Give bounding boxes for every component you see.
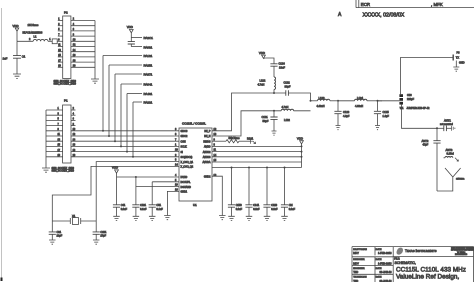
IC U1 CC115L / CC110L (179, 122, 212, 208)
svg-text:P3: P3 (457, 52, 461, 55)
ground (P2 rail) (91, 79, 99, 83)
svg-text:ENGINEER: ENGINEER (353, 268, 365, 270)
ground (P1 rail) (42, 168, 50, 172)
power flag VDD (AVDD bus) (297, 136, 304, 144)
svg-text:VDD: VDD (127, 25, 133, 29)
svg-text:PA091: PA091 (144, 45, 153, 49)
svg-text:47pF: 47pF (423, 144, 429, 147)
pad at P2 pin 9 (52, 39, 57, 44)
inductor L122 (258, 77, 276, 93)
wire flag PA131 to bus (102, 56, 104, 132)
title block frame (352, 247, 474, 282)
inductor L132 (281, 105, 310, 122)
page bottom-left corner mark (1, 278, 3, 282)
svg-text:C110: C110 (271, 204, 277, 207)
ground (C41) (113, 216, 120, 220)
svg-text:XXXXX, 02/08/0X: XXXXX, 02/08/0X (363, 13, 405, 19)
svg-text:L122: L122 (260, 79, 266, 83)
capacitor C123 (334, 100, 349, 126)
svg-text:RF_N: RF_N (204, 135, 211, 138)
svg-text:2: 2 (29, 38, 31, 41)
wire GND1 (167, 191, 179, 215)
svg-text:TBD: TBD (353, 271, 358, 274)
svg-text:DATE: DATE (376, 267, 382, 270)
wire P1 left ground rail (45, 110, 47, 168)
svg-text:DATE: DATE (376, 276, 382, 279)
svg-text:C150: C150 (236, 204, 243, 207)
svg-text:DATE: DATE (376, 258, 382, 261)
wire SI P1 to U1 (71, 151, 179, 153)
wire flag PA251 to bus (108, 65, 110, 137)
svg-text:GND1: GND1 (181, 191, 188, 194)
wire DGUARD (136, 186, 179, 188)
capacitor C125 (374, 100, 389, 126)
capacitor C81 (49, 221, 63, 240)
revision table top right (338, 0, 474, 19)
net flag PA461 (127, 92, 153, 96)
wire flag PA041 to bus (120, 84, 122, 147)
wire L1 to P2 pin 9 pad (48, 40, 52, 42)
svg-text:NLPC1A2222NGS: NLPC1A2222NGS (23, 31, 43, 34)
wire DCOUPL (152, 181, 179, 183)
wire AVDD row 1 (212, 145, 302, 147)
svg-text:0.1uF: 0.1uF (271, 208, 278, 211)
svg-text:CM: CM (289, 204, 293, 207)
wire RF_P (212, 92, 286, 131)
svg-text:ANT3: ANT3 (446, 148, 453, 152)
ground arrow (RBIAS) (251, 139, 256, 144)
svg-text:PA251: PA251 (144, 64, 153, 68)
svg-text:SMS_SOCKET_2X10: SMS_SOCKET_2X10 (54, 84, 77, 86)
capacitor C124 (265, 58, 285, 77)
wire P2 ground rail (94, 21, 96, 80)
wire AVDD row 4 (212, 161, 302, 163)
svg-text:1.6pF: 1.6pF (383, 115, 390, 118)
svg-text:SMS_SOCKET_2X10: SMS_SOCKET_2X10 (52, 171, 75, 173)
wire DVDD rail (117, 176, 180, 178)
wire jumper to antennas (402, 105, 439, 130)
svg-text:0.1uF: 0.1uF (156, 208, 163, 211)
svg-text:08-JAN-13: 08-JAN-13 (380, 271, 393, 274)
svg-text:P2: P2 (64, 11, 68, 15)
capacitor CM (281, 168, 296, 217)
svg-text:0.1uF: 0.1uF (140, 208, 147, 211)
ground (C141) (246, 216, 253, 220)
ground (C101) (93, 240, 100, 244)
svg-text:PA041: PA041 (144, 83, 153, 87)
power flag VDD (net flag column) (127, 25, 134, 37)
svg-text:SMS_SOCKET_2X10: SMS_SOCKET_2X10 (54, 81, 77, 83)
svg-text:CC115L / CC110L: CC115L / CC110L (182, 122, 206, 126)
svg-text:ANT1: ANT1 (444, 119, 451, 123)
svg-text:PA231: PA231 (144, 101, 153, 105)
svg-text:TECHNICIAN: TECHNICIAN (353, 276, 367, 279)
capacitor C141 (245, 168, 260, 217)
svg-text:C41: C41 (121, 204, 126, 207)
svg-text:1: 1 (49, 38, 51, 41)
wire to jumper (378, 100, 400, 102)
svg-text:C124: C124 (279, 62, 286, 66)
ground (C150) (228, 216, 235, 220)
svg-text:RBIAS: RBIAS (203, 140, 211, 143)
ground (GND2) (219, 216, 226, 220)
connector P1 (63, 99, 71, 164)
svg-text:PA131: PA131 (144, 54, 153, 58)
svg-text:JUMPER-K43-3P-J2: JUMPER-K43-3P-J2 (407, 107, 431, 110)
wire GDO0 P1 to U1 (71, 130, 179, 132)
inductor ANT3 (444, 148, 459, 162)
svg-text:33pF: 33pF (285, 85, 291, 89)
svg-text:AVDDA: AVDDA (202, 161, 210, 164)
connector P1 pins (46, 108, 76, 157)
svg-text:SI: SI (181, 151, 184, 154)
ground (C1) (13, 74, 21, 78)
svg-text:PA461: PA461 (144, 92, 153, 96)
svg-text:ValueLine Ref Design,: ValueLine Ref Design, (396, 274, 459, 281)
svg-text:4.62uH: 4.62uH (355, 105, 363, 108)
svg-text:SCLK: SCLK (181, 146, 188, 149)
wire decoupling rail (212, 167, 302, 169)
svg-text:4.62uH: 4.62uH (317, 105, 325, 108)
svg-text:C125: C125 (383, 110, 390, 114)
net flag PA371 (115, 73, 153, 77)
net flag PA091 (131, 45, 152, 49)
svg-text:C39: C39 (407, 94, 412, 97)
power flag VDD (DVDD) (112, 166, 119, 177)
svg-text:CSN: CSN (181, 140, 186, 143)
title block titles (394, 259, 466, 281)
svg-text:L132: L132 (284, 118, 290, 122)
P2 part number labels (54, 81, 77, 86)
ground (C131) (272, 131, 277, 135)
svg-text:1KOhms: 1KOhms (28, 23, 39, 27)
svg-text:P1: P1 (64, 99, 68, 103)
capacitor C110 (263, 168, 278, 217)
node RF join (310, 100, 312, 102)
svg-text:0.1uF: 0.1uF (253, 208, 260, 211)
svg-text:1uF: 1uF (3, 56, 8, 60)
inductor L123 (311, 96, 338, 108)
capacitor C122 (284, 81, 311, 101)
svg-text:56kOhms: 56kOhms (229, 136, 241, 140)
wire RF_N (212, 110, 281, 136)
svg-text:DVDD: DVDD (181, 176, 188, 179)
svg-text:C141: C141 (253, 204, 260, 207)
svg-text:C51: C51 (156, 204, 161, 207)
net flag PA131 (103, 54, 153, 58)
svg-text:C123: C123 (343, 110, 350, 114)
net flag PA041 (121, 83, 153, 87)
wire jumper to P3 (401, 58, 454, 95)
svg-text:MDV: MDV (353, 262, 359, 265)
svg-text:GDO2: GDO2 (181, 135, 188, 138)
svg-text:L1: L1 (34, 35, 37, 39)
resistor R131 56kOhms (212, 136, 254, 143)
svg-text:1-FEB-2013: 1-FEB-2013 (378, 252, 392, 255)
svg-text:0.1uF: 0.1uF (289, 208, 296, 211)
antenna symbol (437, 168, 465, 191)
net flag PA201 (131, 36, 153, 40)
svg-text:22pF: 22pF (57, 235, 63, 238)
svg-text:VDD: VDD (259, 51, 265, 55)
page left border (1, 8, 3, 281)
crystal X1 (52, 214, 96, 224)
svg-text:C181: C181 (140, 204, 147, 207)
svg-text:4.7uH: 4.7uH (258, 83, 265, 87)
wire CSN P1 to U1 (71, 140, 179, 142)
svg-text:INSTRUMENTS: INSTRUMENTS (455, 254, 468, 256)
svg-text:L124: L124 (357, 96, 363, 100)
inductor L1 (17, 23, 51, 42)
op-amp U1 pin labels left (175, 128, 194, 194)
wire flag PA371 to bus (114, 74, 116, 142)
svg-text:GDO0: GDO0 (181, 130, 188, 133)
wire SCLK P1 to U1 (71, 145, 179, 147)
capacitor C181 (132, 177, 147, 216)
capacitor C150 (228, 168, 243, 217)
ground (CM) (281, 216, 288, 220)
title block small print (451, 247, 474, 256)
svg-text:VDD: VDD (13, 24, 19, 28)
TI logo (397, 248, 437, 255)
svg-text:PA2O1: PA2O1 (144, 36, 154, 40)
svg-text:CC115L C110L 433 MHz: CC115L C110L 433 MHz (396, 266, 466, 273)
svg-text:VDD: VDD (297, 136, 303, 140)
ground (C125) (375, 126, 380, 130)
svg-text:PA371: PA371 (144, 73, 153, 77)
svg-text:, MFK: , MFK (431, 2, 443, 7)
P1 part number labels (52, 168, 75, 173)
svg-text:ANT2: ANT2 (422, 139, 429, 143)
svg-text:GND: GND (459, 61, 465, 64)
capacitor C1 (3, 41, 26, 74)
svg-text:GND2: GND2 (204, 175, 211, 178)
capacitor (flag column) (128, 38, 135, 47)
svg-text:0.25wl: 0.25wl (447, 153, 455, 156)
svg-text:27pF: 27pF (100, 235, 106, 238)
svg-text:A: A (338, 12, 342, 18)
svg-text:AVDD: AVDD (204, 146, 211, 149)
power flag VDD (top-left) (13, 24, 19, 41)
wire AVDD row 3 (212, 156, 302, 158)
inductor L124 (338, 96, 382, 108)
wire pad to P2 (57, 40, 63, 42)
ground (C81) (49, 240, 56, 244)
capacitor C41 (113, 177, 128, 216)
svg-text:C131: C131 (262, 115, 269, 119)
svg-text:X_OSC_Q2: X_OSC_Q2 (181, 166, 194, 169)
net flag PA231 (133, 101, 153, 105)
svg-text:U1: U1 (193, 203, 197, 207)
connector P2 (63, 11, 71, 79)
jumper W1 pads (399, 94, 430, 110)
svg-text:antenna: antenna (456, 178, 465, 181)
svg-text:DATE: DATE (376, 248, 382, 251)
ground (C123) (336, 126, 341, 130)
ground (C51) (149, 216, 156, 220)
svg-text:1-FEB-2013: 1-FEB-2013 (378, 262, 392, 265)
svg-text:VDD: VDD (112, 166, 118, 170)
capacitor C131 (262, 111, 278, 131)
svg-text:SCHEMATIC,: SCHEMATIC, (395, 261, 416, 265)
wire AVDD bus (301, 144, 303, 168)
wire flag PA461 to bus (126, 94, 128, 153)
svg-text:0.1uF: 0.1uF (121, 208, 128, 211)
svg-text:C1: C1 (22, 54, 26, 58)
svg-text:4.7uH: 4.7uH (282, 105, 289, 109)
wire X_OSC_Q2 (52, 166, 179, 221)
svg-text:DCOUPL: DCOUPL (181, 181, 192, 184)
capacitor C101 (93, 221, 107, 240)
svg-text:C122: C122 (284, 81, 291, 85)
wire GDO2 P1 to U1 (71, 135, 179, 137)
svg-text:DGUARD: DGUARD (181, 186, 192, 189)
svg-text:RF_P: RF_P (204, 130, 211, 133)
svg-text:AVDD2: AVDD2 (203, 151, 211, 154)
svg-text:DESIGNER: DESIGNER (353, 259, 365, 261)
wire GND2 (212, 176, 222, 215)
svg-text:MDV: MDV (353, 252, 359, 255)
svg-text:4.3pF: 4.3pF (343, 115, 350, 118)
net flag PA251 (109, 64, 153, 68)
title block left table (352, 247, 393, 282)
ground (C110) (264, 216, 271, 220)
ground (GND1) (164, 216, 171, 220)
svg-text:ECR: ECR (361, 2, 370, 7)
wire flag PA231 to bus (132, 102, 134, 158)
svg-text:220pF: 220pF (407, 98, 415, 101)
antenna ANT1 not mounted (437, 119, 455, 132)
svg-text:10nF: 10nF (279, 66, 285, 70)
wire X_OSC_Q1 (96, 162, 179, 221)
svg-text:56pF: 56pF (263, 119, 269, 123)
svg-text:SO(GDO1): SO(GDO1) (181, 156, 193, 159)
ground (P3) (453, 67, 459, 71)
wire SO P1 to U1 (71, 156, 179, 158)
svg-text:0.1uF: 0.1uF (236, 208, 243, 211)
svg-text:DRAFTSMAN: DRAFTSMAN (353, 248, 367, 251)
svg-text:W1: W1 (400, 107, 404, 110)
svg-text:TX: TX (456, 56, 460, 59)
connector P2 pins (58, 19, 95, 68)
power flag VDD (C124) (259, 51, 266, 59)
svg-text:L123: L123 (319, 96, 325, 100)
svg-text:SMS_SOCKET_2X10: SMS_SOCKET_2X10 (52, 168, 75, 170)
wire AVDD row 2 (212, 151, 302, 153)
connector P3 (453, 52, 465, 68)
capacitor ANT2 (422, 128, 441, 191)
ground (C181) (133, 216, 140, 220)
capacitor C51 (149, 182, 164, 217)
svg-text:X_OSC_Q1: X_OSC_Q1 (181, 161, 194, 164)
svg-text:AVDD3: AVDD3 (203, 156, 211, 159)
svg-text:TEXAS INSTRUMENTS: TEXAS INSTRUMENTS (405, 249, 437, 253)
op-amp U1 pin labels right (202, 128, 216, 179)
